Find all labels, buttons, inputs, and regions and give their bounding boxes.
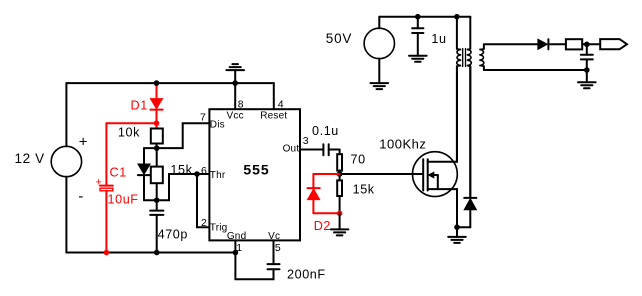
svg-text:8: 8 xyxy=(238,99,244,111)
svg-text:15k: 15k xyxy=(353,183,375,197)
wire pin8 Vcc stub xyxy=(234,83,236,109)
wire pin4 Reset stub xyxy=(273,83,275,109)
svg-text:2: 2 xyxy=(201,217,207,229)
capacitor C3 200nF xyxy=(235,253,279,280)
svg-text:200nF: 200nF xyxy=(287,268,326,282)
transformer T1 primary xyxy=(457,17,462,162)
svg-text:Dis: Dis xyxy=(210,119,225,130)
wire top rail left xyxy=(66,82,273,84)
transistor Q1 MOSFET 100Khz xyxy=(413,152,458,197)
wire pin1 Gnd stub xyxy=(234,240,236,252)
wire top rail right xyxy=(379,16,470,18)
svg-text:1u: 1u xyxy=(431,32,446,46)
svg-text:+: + xyxy=(96,177,102,189)
capacitor C5 1u xyxy=(412,17,423,56)
node rail / primary xyxy=(454,14,460,20)
svg-text:Reset: Reset xyxy=(260,110,287,121)
svg-text:555: 555 xyxy=(243,162,269,178)
svg-text:6: 6 xyxy=(201,165,207,177)
capacitor C1 10uF xyxy=(100,186,113,253)
svg-text:Trig: Trig xyxy=(210,223,228,234)
wire pin3 Out stub xyxy=(300,149,323,151)
wire source to D3 xyxy=(457,226,470,228)
wire pin5 Vc stub xyxy=(273,240,275,264)
node 10k bottom / pin7 xyxy=(154,145,160,151)
node Thr / Trig link xyxy=(194,171,200,177)
svg-text:50V: 50V xyxy=(326,31,352,46)
wire pin7 Dis net xyxy=(157,123,210,148)
wire to output node xyxy=(582,43,600,45)
capacitor C6 (output) xyxy=(581,44,593,70)
svg-text:470p: 470p xyxy=(158,228,188,242)
voltage source V2 50V xyxy=(364,17,394,83)
node output bottom xyxy=(584,67,590,73)
node rail / 1u xyxy=(415,14,421,20)
diode D5 (discharge path) xyxy=(138,148,157,200)
svg-text:10uF: 10uF xyxy=(108,193,139,207)
svg-text:5: 5 xyxy=(275,242,281,254)
ground (under 50V) xyxy=(371,83,389,89)
transformer T1 secondary (reset winding) xyxy=(467,17,472,198)
svg-text:1: 1 xyxy=(236,242,242,254)
voltage source V1 12V xyxy=(51,83,81,252)
node 15k bottom / 470p xyxy=(154,197,160,203)
svg-text:Vcc: Vcc xyxy=(227,111,244,122)
resistor R5 (output) xyxy=(566,39,582,49)
wire red net to C1 xyxy=(106,123,156,185)
svg-text:3: 3 xyxy=(303,135,309,147)
svg-text:4: 4 xyxy=(278,99,284,111)
resistor R1 10k xyxy=(151,123,163,148)
wire secondary bottom xyxy=(484,69,587,71)
node 470p / bottom rail xyxy=(154,250,160,256)
svg-text:Vc: Vc xyxy=(268,231,280,242)
ground (output) xyxy=(578,70,596,88)
inductor L1 (output winding) xyxy=(479,44,484,70)
wire secondary top xyxy=(484,43,538,45)
ground (under MOSFET) xyxy=(448,227,466,243)
diode D1 xyxy=(150,83,162,123)
node top rail / D1 xyxy=(154,80,160,86)
node top rail / pin8 xyxy=(232,80,238,86)
resistor R4 15k xyxy=(337,174,342,213)
pin labels xyxy=(200,99,309,254)
node output xyxy=(584,42,590,48)
capacitor C2 470p xyxy=(150,200,163,252)
svg-text:Thr: Thr xyxy=(210,170,226,181)
svg-text:D2: D2 xyxy=(314,219,331,233)
transformer T1 core xyxy=(463,49,466,67)
node gate xyxy=(337,171,343,177)
diode D2 xyxy=(308,174,340,213)
capacitor C4 0.1u xyxy=(323,144,339,155)
svg-text:-: - xyxy=(78,188,83,205)
node pin1 / bottom rail xyxy=(233,250,239,256)
diode D3 (clamp) xyxy=(464,66,476,227)
ground (under 1u) xyxy=(409,56,427,62)
diode D4 (rectifier) xyxy=(538,39,566,49)
wire Thr to Trig link xyxy=(197,174,209,227)
op-amp U1 555 box xyxy=(209,109,300,240)
ground (under 15k/D2) xyxy=(331,213,349,235)
svg-text:0.1u: 0.1u xyxy=(312,124,339,138)
svg-text:7: 7 xyxy=(200,112,206,124)
wire source down xyxy=(456,189,458,227)
svg-text:+: + xyxy=(79,134,88,151)
svg-text:Gnd: Gnd xyxy=(227,231,247,242)
resistor R2 15k xyxy=(151,148,163,200)
node 15k / D2 (red) xyxy=(337,211,343,217)
node D1 / 10k (red) xyxy=(154,120,160,126)
wire bottom rail left xyxy=(66,252,235,254)
svg-text:Out: Out xyxy=(283,144,300,155)
wire gate xyxy=(340,173,423,175)
node out (labeled tag) xyxy=(600,39,627,49)
svg-text:12 V: 12 V xyxy=(15,151,45,166)
node source xyxy=(454,224,460,230)
resistor R3 70 xyxy=(337,150,342,175)
wire Thr net xyxy=(157,174,210,200)
svg-text:C1: C1 xyxy=(110,166,127,180)
node C1 / bottom rail (red) xyxy=(104,250,110,256)
svg-text:70: 70 xyxy=(351,153,366,167)
svg-text:10k: 10k xyxy=(118,125,140,139)
wire drain up xyxy=(456,66,458,162)
svg-text:100Khz: 100Khz xyxy=(379,137,426,152)
svg-text:D1: D1 xyxy=(131,99,148,113)
ground (top, inverted) xyxy=(226,64,244,83)
